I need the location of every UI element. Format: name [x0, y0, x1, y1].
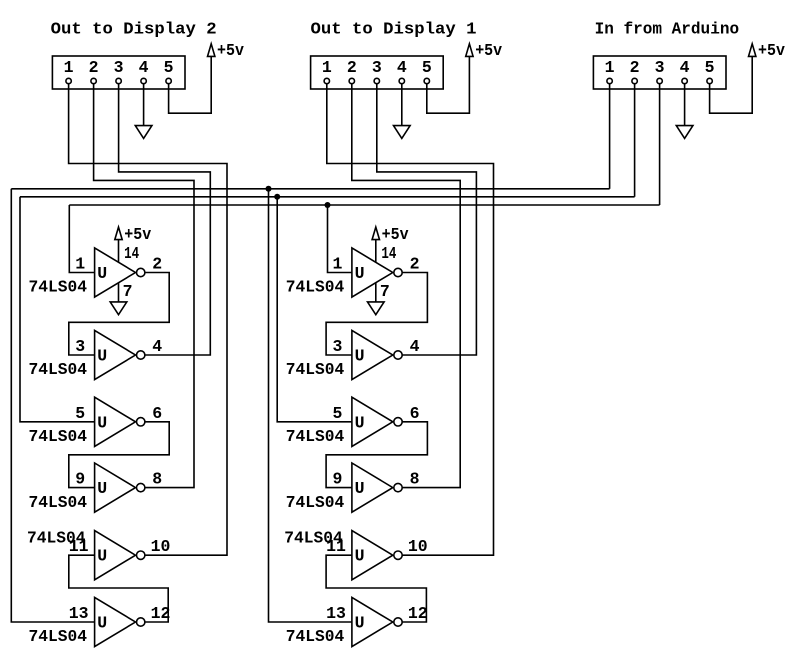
label Out to Display 1 [311, 20, 477, 39]
inverter U1 gate D (74LS04, pins 9->8) [95, 463, 145, 512]
svg-text:74LS04: 74LS04 [286, 360, 345, 379]
svg-text:74LS04: 74LS04 [27, 529, 86, 548]
wire U2 pin2 to pin3 (gate A out to gate B in) [326, 273, 427, 356]
junction bus C [325, 202, 331, 208]
pin label 14 (U1 vcc) [124, 244, 139, 263]
svg-text:7: 7 [123, 282, 133, 301]
svg-text:5: 5 [705, 58, 715, 77]
svg-text:U: U [97, 614, 107, 633]
+5v power symbol [208, 41, 245, 60]
svg-text:9: 9 [332, 470, 342, 489]
inverter U2 gate C (74LS04, pins 5->6) [352, 397, 402, 446]
svg-text:2: 2 [410, 255, 420, 274]
wire U2 pin4 to display pin3 [377, 84, 477, 355]
svg-text:9: 9 [75, 470, 85, 489]
svg-text:13: 13 [69, 604, 89, 623]
svg-text:+5v: +5v [124, 225, 151, 244]
svg-text:U: U [97, 547, 107, 566]
pin label 5 (U1 gate C input) [75, 404, 85, 423]
svg-text:74LS04: 74LS04 [29, 427, 88, 446]
pin label 8 (U2 gate D output) [410, 470, 420, 489]
+5v power symbol (U2 pin14) [372, 225, 409, 244]
svg-text:10: 10 [408, 537, 428, 556]
wire U1 pin8 to display pin2 [94, 84, 194, 488]
svg-text:74LS04: 74LS04 [29, 627, 88, 646]
svg-text:8: 8 [152, 470, 162, 489]
wire bus B left drop to U1 pin5 [20, 197, 95, 422]
svg-text:2: 2 [347, 58, 357, 77]
svg-text:4: 4 [397, 58, 407, 77]
svg-text:8: 8 [410, 470, 420, 489]
pin label 10 (U2 gate E output) [408, 537, 428, 556]
svg-text:U: U [355, 347, 365, 366]
pin label 4 (U1 gate B output) [152, 337, 162, 356]
inverter U2 gate E (74LS04, pins 11->10) [352, 531, 402, 580]
svg-text:74LS04: 74LS04 [29, 493, 88, 512]
wire bus A horizontal (net ARD1) [11, 188, 609, 190]
svg-text:U: U [355, 413, 365, 432]
value label 74LS04 (U1 gate B) [29, 360, 88, 379]
svg-text:14: 14 [381, 244, 396, 263]
pin label 7 (U2 gnd) [380, 282, 390, 301]
svg-text:74LS04: 74LS04 [286, 427, 345, 446]
svg-text:2: 2 [89, 58, 99, 77]
svg-text:U: U [355, 547, 365, 566]
svg-text:U: U [355, 614, 365, 633]
svg-text:5: 5 [164, 58, 174, 77]
pin label 5 (U2 gate C input) [332, 404, 342, 423]
svg-text:4: 4 [410, 337, 420, 356]
svg-text:4: 4 [680, 58, 690, 77]
svg-text:5: 5 [332, 404, 342, 423]
svg-text:74LS04: 74LS04 [29, 278, 88, 297]
connector In from Arduino [593, 56, 726, 89]
wire bus B horizontal (net ARD2) [20, 196, 635, 198]
wire Arduino pin2 down to bus B [634, 84, 636, 197]
ground symbol (U1 pin7) [110, 302, 127, 315]
svg-text:4: 4 [139, 58, 149, 77]
wire bus C left drop to U1 pin1 [69, 205, 94, 273]
label In from Arduino [595, 20, 740, 39]
connector Out to Display 2 [52, 56, 185, 89]
value label 74LS04 (U1 gate E) [27, 529, 86, 548]
value label 74LS04 (U1 gate C) [29, 427, 88, 446]
value label 74LS04 (U2 gate F) [286, 627, 345, 646]
wire connector pin4 to ground [684, 84, 686, 126]
wire U2 pin14 to +5v [375, 240, 377, 263]
svg-text:3: 3 [332, 337, 342, 356]
inverter U2 gate A (74LS04, pins 1->2) [352, 248, 402, 297]
svg-text:U: U [97, 264, 107, 283]
value label 74LS04 (U1 gate A) [29, 278, 88, 297]
svg-text:U: U [97, 413, 107, 432]
label Out to Display 2 [51, 20, 217, 39]
svg-text:74LS04: 74LS04 [286, 278, 345, 297]
pin label 8 (U1 gate D output) [152, 470, 162, 489]
wire Arduino pin1 down to bus A [609, 84, 611, 189]
svg-text:74LS04: 74LS04 [286, 627, 345, 646]
pin label 12 (U2 gate F output) [408, 604, 428, 623]
ground symbol [676, 126, 693, 139]
svg-text:10: 10 [151, 537, 171, 556]
svg-text:1: 1 [64, 58, 74, 77]
wire U2 pin8 to display pin2 [352, 84, 460, 488]
svg-text:+5v: +5v [758, 41, 785, 60]
svg-text:1: 1 [605, 58, 615, 77]
svg-text:U: U [97, 479, 107, 498]
junction bus A [266, 186, 272, 192]
wire connector pin4 to ground [401, 84, 403, 126]
svg-text:U: U [97, 347, 107, 366]
pin label 7 (U1 gnd) [123, 282, 133, 301]
svg-text:3: 3 [114, 58, 124, 77]
pin label 3 (U1 gate B input) [75, 337, 85, 356]
wire U2 pin10 to display pin1 [327, 84, 494, 556]
wire bus A left drop to U1 pin13 [11, 189, 94, 622]
wire U1 pin2 to pin3 (gate A out to gate B in) [69, 273, 169, 356]
wire U1 pin12 to pin11 (gate F out to gate E in) [69, 555, 168, 622]
svg-text:U: U [355, 479, 365, 498]
wire U2 pin7 to ground [375, 283, 377, 302]
svg-text:7: 7 [380, 282, 390, 301]
wire connector pin5 to +5v [427, 56, 470, 113]
pin label 2 (U2 gate A output) [410, 255, 420, 274]
pin label 6 (U1 gate C output) [152, 404, 162, 423]
svg-text:U: U [355, 264, 365, 283]
svg-text:In from Arduino: In from Arduino [595, 20, 740, 39]
value label 74LS04 (U2 gate E) [284, 529, 343, 548]
value label 74LS04 (U2 gate C) [286, 427, 345, 446]
svg-text:5: 5 [422, 58, 432, 77]
pin label 6 (U2 gate C output) [410, 404, 420, 423]
svg-text:1: 1 [322, 58, 332, 77]
wire Arduino pin3 down to bus C [659, 84, 661, 205]
value label 74LS04 (U2 gate A) [286, 278, 345, 297]
pin label 14 (U2 vcc) [381, 244, 396, 263]
pin label 1 (U1 gate A input) [75, 255, 85, 274]
svg-text:13: 13 [326, 604, 346, 623]
wire U1 pin7 to ground [118, 283, 120, 302]
wire U1 pin10 to display pin1 [69, 84, 227, 556]
svg-text:74LS04: 74LS04 [286, 493, 345, 512]
inverter U1 gate B (74LS04, pins 3->4) [95, 330, 145, 379]
svg-text:4: 4 [152, 337, 162, 356]
inverter U2 gate F (74LS04, pins 13->12) [352, 597, 402, 646]
ground symbol (U2 pin7) [368, 302, 385, 315]
svg-text:12: 12 [408, 604, 428, 623]
svg-text:6: 6 [410, 404, 420, 423]
inverter U2 gate D (74LS04, pins 9->8) [352, 463, 402, 512]
pin label 11 (U1 gate E input) [69, 537, 89, 556]
svg-text:74LS04: 74LS04 [29, 360, 88, 379]
svg-text:3: 3 [372, 58, 382, 77]
ground symbol [135, 126, 152, 139]
svg-text:1: 1 [75, 255, 85, 274]
ground symbol [394, 126, 411, 139]
svg-text:+5v: +5v [217, 41, 244, 60]
svg-text:+5v: +5v [475, 41, 502, 60]
pin label 4 (U2 gate B output) [410, 337, 420, 356]
wire U2 pin12 to pin11 (gate F out to gate E in) [326, 555, 426, 622]
junction bus B [274, 194, 280, 200]
svg-text:5: 5 [75, 404, 85, 423]
wire bus A junction drop to U2 pin13 [269, 189, 352, 622]
wire U1 pin4 to display pin3 [119, 84, 211, 355]
svg-text:+5v: +5v [382, 225, 409, 244]
pin label 11 (U2 gate E input) [326, 537, 346, 556]
wire bus C horizontal (net ARD3) [69, 204, 659, 206]
svg-text:2: 2 [152, 255, 162, 274]
svg-text:Out to Display 1: Out to Display 1 [311, 20, 477, 39]
pin label 9 (U2 gate D input) [332, 470, 342, 489]
svg-text:1: 1 [332, 255, 342, 274]
+5v power symbol [466, 41, 503, 60]
pin label 1 (U2 gate A input) [332, 255, 342, 274]
pin label 2 (U1 gate A output) [152, 255, 162, 274]
wire U1 pin14 to +5v [118, 240, 120, 263]
wire connector pin5 to +5v [710, 56, 753, 113]
value label 74LS04 (U2 gate D) [286, 493, 345, 512]
pin label 9 (U1 gate D input) [75, 470, 85, 489]
svg-text:2: 2 [630, 58, 640, 77]
value label 74LS04 (U2 gate B) [286, 360, 345, 379]
inverter U2 gate B (74LS04, pins 3->4) [352, 330, 402, 379]
connector Out to Display 1 [311, 56, 444, 89]
inverter U1 gate F (74LS04, pins 13->12) [95, 597, 145, 646]
svg-text:3: 3 [655, 58, 665, 77]
value label 74LS04 (U1 gate D) [29, 493, 88, 512]
inverter U1 gate E (74LS04, pins 11->10) [95, 531, 145, 580]
+5v power symbol [749, 41, 786, 60]
inverter U1 gate A (74LS04, pins 1->2) [95, 248, 145, 297]
wire U1 pin6 to pin9 (gate C out to gate D in) [69, 422, 169, 488]
svg-text:3: 3 [75, 337, 85, 356]
svg-text:Out to Display 2: Out to Display 2 [51, 20, 217, 39]
wire connector pin5 to +5v [169, 56, 212, 113]
wire bus C junction drop to U2 pin1 [328, 205, 352, 273]
wire U2 pin6 to pin9 (gate C out to gate D in) [326, 422, 427, 488]
wire connector pin4 to ground [143, 84, 145, 126]
svg-text:14: 14 [124, 244, 139, 263]
pin label 10 (U1 gate E output) [151, 537, 171, 556]
pin label 13 (U1 gate F input) [69, 604, 89, 623]
svg-text:74LS04: 74LS04 [284, 529, 343, 548]
value label 74LS04 (U1 gate F) [29, 627, 88, 646]
+5v power symbol (U1 pin14) [115, 225, 152, 244]
wire bus B junction drop to U2 pin5 [277, 197, 352, 422]
inverter U1 gate C (74LS04, pins 5->6) [95, 397, 145, 446]
svg-text:6: 6 [152, 404, 162, 423]
pin label 12 (U1 gate F output) [151, 604, 171, 623]
pin label 13 (U2 gate F input) [326, 604, 346, 623]
pin label 3 (U2 gate B input) [332, 337, 342, 356]
